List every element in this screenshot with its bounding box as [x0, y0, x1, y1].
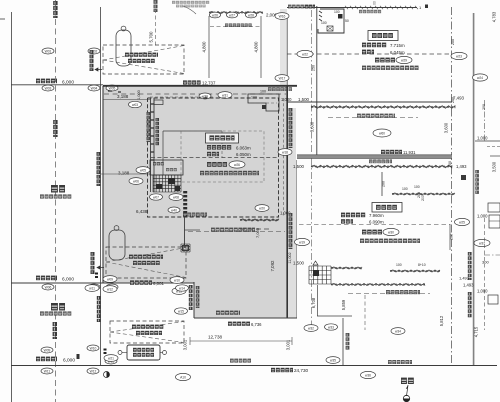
- west wall line inner: [153, 98, 155, 192]
- parapet dark box: [338, 14, 343, 19]
- balcony outline NE: [248, 94, 279, 111]
- site west boundary: [102, 86, 104, 283]
- dashes E of band: [487, 146, 500, 148]
- svg-text:200: 200: [448, 161, 452, 167]
- spec2 row eaves: [362, 50, 374, 54]
- svg-text:w06: w06: [133, 179, 139, 183]
- svg-text:W04: W04: [91, 86, 98, 90]
- svg-text:w28: w28: [248, 13, 254, 17]
- svg-text:W16: W16: [279, 14, 286, 18]
- svg-text:W11: W11: [44, 369, 51, 373]
- svg-text:100: 100: [396, 263, 402, 267]
- east eaves dash vline: [283, 98, 285, 217]
- svg-text:w08: w08: [173, 195, 179, 199]
- site south boundary: [194, 317, 297, 319]
- road name label 2: [51, 303, 65, 311]
- car space A dashed rect: [103, 45, 184, 74]
- bubble L2: [88, 48, 100, 54]
- bubble L11: [41, 368, 53, 374]
- bubble cc1: [104, 355, 118, 362]
- svg-text:200: 200: [382, 181, 386, 187]
- north hatch dim line: [209, 11, 263, 13]
- stair grid upper: [153, 175, 181, 192]
- wheel stops C: [104, 349, 107, 351]
- svg-text:w19: w19: [299, 240, 305, 244]
- east boundary ext above: [286, 18, 288, 86]
- svg-text:3,188: 3,188: [118, 171, 130, 176]
- site boundary dash row: [104, 93, 286, 95]
- neighbor boundary band: [297, 155, 452, 159]
- bubble rc1: [474, 239, 490, 246]
- north arrow label: [401, 378, 414, 384]
- svg-text:3,188: 3,188: [117, 94, 129, 99]
- site east narrow strip: [287, 108, 296, 318]
- svg-text:6,001: 6,001: [153, 281, 165, 286]
- svg-text:200: 200: [482, 104, 486, 110]
- inner room lines: [163, 130, 222, 132]
- dim line mid: [101, 173, 151, 175]
- road centerline label mid: [53, 120, 57, 137]
- bubble bl1: [304, 325, 318, 332]
- bubble s2: [129, 178, 143, 185]
- right dashdot boundary: [451, 7, 453, 365]
- bubble cb2: [170, 277, 184, 284]
- svg-text:w24: w24: [477, 76, 483, 80]
- svg-text:6.045m: 6.045m: [390, 50, 405, 55]
- svg-text:6.063m: 6.063m: [236, 146, 251, 151]
- bicycle shed label: [133, 348, 154, 352]
- svg-text:4,800: 4,800: [254, 41, 259, 53]
- bubble L1: [42, 48, 54, 54]
- svg-text:1,000: 1,000: [477, 136, 488, 141]
- east site boundary double: [473, 13, 475, 365]
- rc boundary text2: [468, 292, 472, 317]
- svg-text:11,931: 11,931: [403, 150, 416, 155]
- bubble re1: [473, 74, 488, 81]
- hatch dim line upper: [311, 106, 455, 109]
- entrance grid stall: [309, 266, 331, 284]
- dash vline 5700: [155, 9, 157, 46]
- stub vline r: [449, 224, 451, 250]
- parcel south dim: [130, 280, 152, 284]
- tree symbol A: [116, 30, 131, 66]
- airspace note NE: [268, 87, 292, 91]
- svg-text:1,493: 1,493: [456, 164, 467, 169]
- car space A diagonals: [103, 46, 184, 61]
- svg-text:w40: w40: [171, 208, 177, 212]
- bubble cr2: [175, 308, 188, 314]
- south boundary label: [216, 311, 240, 315]
- car space B diagonals: [106, 248, 186, 263]
- spec2 row note: [362, 66, 419, 70]
- spec1 row eaves: [207, 152, 219, 156]
- bubble L5: [106, 85, 118, 91]
- slope arrow A: [95, 68, 102, 71]
- west wall dim label: [147, 112, 151, 142]
- car space C dashed rect: [110, 321, 184, 343]
- svg-text:w26: w26: [234, 163, 240, 167]
- svg-text:100: 100: [414, 185, 420, 189]
- svg-text:100: 100: [321, 21, 327, 25]
- top small text col x312: [305, 5, 315, 9]
- svg-text:250: 250: [312, 65, 316, 71]
- corner boundary line: [193, 282, 195, 318]
- svg-text:00: 00: [373, 1, 377, 5]
- hatch step line: [392, 193, 455, 195]
- spec3 dashed line: [299, 224, 450, 226]
- mid stub hline: [317, 315, 352, 317]
- bubble L8: [106, 284, 118, 290]
- bubble cr1: [176, 285, 189, 291]
- svg-text:6,438: 6,438: [136, 209, 148, 214]
- svg-text:W12: W12: [90, 369, 97, 373]
- road horizontal edge top: [11, 84, 103, 86]
- tree symbol B: [109, 230, 125, 260]
- setback dim text: [183, 80, 201, 84]
- stair upper box: [150, 160, 183, 175]
- shed circle E: [163, 351, 167, 355]
- svg-text:7.960m: 7.960m: [369, 213, 384, 218]
- half moon symbol: [104, 372, 110, 378]
- north note row2: [176, 5, 206, 8]
- north arrow line: [407, 385, 409, 396]
- bicycle shed box: [127, 345, 160, 360]
- svg-text:W17: W17: [279, 76, 286, 80]
- svg-text:1,000: 1,000: [281, 97, 292, 102]
- svg-text:w30: w30: [388, 230, 394, 234]
- bubble rm1: [455, 218, 470, 225]
- bubble L3: [42, 85, 54, 91]
- bubble bl4: [326, 357, 340, 364]
- lower bracket note: [386, 290, 420, 294]
- band label below: [369, 159, 392, 163]
- bubble L6: [42, 284, 54, 290]
- upper bracket note: [357, 114, 395, 118]
- roof note text: [211, 228, 255, 232]
- slope arrow B: [97, 266, 104, 269]
- svg-text:w05: w05: [140, 168, 146, 172]
- sky dashed line: [287, 53, 452, 55]
- svg-text:4,715: 4,715: [474, 326, 479, 337]
- svg-text:8+10: 8+10: [418, 263, 426, 267]
- neighbor setback line W: [208, 16, 210, 78]
- shed circle W: [118, 351, 122, 355]
- svg-text:3,001: 3,001: [183, 339, 188, 350]
- stair south line: [184, 216, 186, 247]
- rc boundary text: [468, 252, 472, 280]
- svg-text:W03: W03: [45, 86, 52, 90]
- svg-text:w23: w23: [456, 54, 462, 58]
- bubble s1: [136, 167, 150, 174]
- east elevation label 3: [230, 359, 251, 363]
- sky bubble 1: [297, 50, 313, 57]
- site east boundary bold: [286, 86, 288, 318]
- vdash lower mid: [364, 295, 366, 330]
- slope label A: [90, 50, 94, 71]
- road centerline (dashed): [55, 0, 57, 402]
- north hatch bubbles: [209, 12, 220, 18]
- bubble L7: [88, 284, 100, 290]
- neighbor setback line E: [260, 16, 262, 78]
- hatch line stall E: [331, 267, 362, 269]
- hatch line lower: [331, 283, 425, 285]
- bubble L4: [88, 85, 100, 91]
- bubble L13: [105, 358, 117, 364]
- balcony dark mark: [262, 105, 266, 109]
- svg-text:12,738: 12,738: [208, 335, 222, 340]
- under-stairs label: [183, 213, 207, 217]
- svg-text:200: 200: [451, 97, 455, 103]
- svg-text:50: 50: [345, 19, 349, 23]
- svg-text:w10: w10: [174, 278, 180, 282]
- svg-text:6.090m: 6.090m: [369, 220, 384, 225]
- spec1 row note: [200, 171, 259, 175]
- north note row1: [172, 1, 209, 4]
- road west edge line: [11, 12, 13, 402]
- svg-text:6,736: 6,736: [251, 322, 262, 327]
- svg-text:w33: w33: [328, 325, 334, 329]
- svg-text:w34: w34: [395, 329, 401, 333]
- bubble s3: [150, 194, 163, 200]
- svg-text:1,000: 1,000: [477, 214, 488, 219]
- front road dash-dot line: [311, 10, 313, 330]
- svg-text:w25: w25: [459, 220, 465, 224]
- bubble b1: [129, 101, 142, 107]
- vdash x155 top marks: [154, 0, 158, 12]
- road width text mid: [36, 276, 57, 281]
- SE vert label: [346, 333, 350, 350]
- rc small box 1: [488, 203, 500, 212]
- spec2 row height: [362, 43, 386, 48]
- rc small box 2: [489, 215, 500, 228]
- car space B label: [129, 255, 163, 259]
- svg-text:w09: w09: [107, 277, 113, 281]
- spec3 row note: [360, 239, 420, 243]
- svg-text:w18: w18: [282, 150, 288, 154]
- spec3 row slope: [362, 230, 382, 235]
- svg-text:100: 100: [251, 95, 257, 99]
- svg-text:W01: W01: [45, 49, 52, 53]
- svg-text:w32: w32: [308, 326, 314, 330]
- parapet xbox: [327, 26, 333, 31]
- top airspace text: [288, 5, 315, 9]
- slope label B: [91, 252, 95, 274]
- svg-text:1,500: 1,500: [293, 164, 305, 169]
- svg-text:5,700: 5,700: [149, 31, 154, 43]
- svg-text:3,600: 3,600: [310, 121, 315, 132]
- svg-text:w31: w31: [222, 93, 228, 97]
- bubble bb1: [176, 373, 191, 380]
- lower bracket dashed: [348, 293, 430, 295]
- mid stub vline: [317, 285, 319, 316]
- svg-text:w26: w26: [212, 13, 218, 17]
- hatch end blob: [461, 175, 466, 180]
- road horizontal edge bottom: [11, 365, 497, 367]
- road horizontal edge mid: [11, 282, 194, 284]
- bubble gray1: [255, 205, 269, 212]
- svg-text:100: 100: [260, 90, 266, 94]
- bubble e4: [295, 238, 310, 245]
- road width text top: [36, 79, 57, 84]
- spec3 row height: [341, 213, 365, 218]
- inner partition dashed: [181, 131, 264, 182]
- road centerline label top: [53, 1, 57, 18]
- bubble L10: [87, 345, 99, 351]
- svg-text:1,493: 1,493: [463, 283, 474, 288]
- top boundary line: [287, 7, 417, 9]
- bubble cb1: [103, 276, 117, 283]
- svg-text:w29: w29: [401, 58, 407, 62]
- bubble cb3: [85, 285, 99, 292]
- bubble e1: [275, 13, 289, 20]
- rc small box 3: [488, 295, 498, 304]
- corner vert text W: [189, 285, 193, 310]
- svg-text:w03: w03: [132, 103, 138, 107]
- roof note bracket: [188, 231, 285, 233]
- SE corner vline: [342, 318, 344, 365]
- boundary dash bubble: [218, 92, 232, 99]
- east elevation label 2: [388, 360, 412, 364]
- stub vline mid: [381, 172, 383, 196]
- svg-text:w60: w60: [379, 131, 385, 135]
- dim line 3188 top: [103, 99, 150, 101]
- hatch step line 2: [390, 270, 440, 272]
- svg-text:w36: w36: [365, 373, 371, 377]
- svg-text:1,493: 1,493: [459, 275, 470, 280]
- hatch dim line mid: [311, 165, 452, 168]
- spec3 title box: [372, 203, 402, 213]
- balcony dashes: [251, 102, 277, 104]
- south dim 6736: [228, 322, 250, 326]
- svg-text:100: 100: [402, 187, 408, 191]
- spec2 title box: [368, 31, 398, 41]
- svg-text:w27: w27: [229, 13, 235, 17]
- svg-text:1,500: 1,500: [293, 261, 305, 266]
- svg-text:1,500: 1,500: [298, 97, 310, 102]
- wheel stops B: [95, 273, 98, 275]
- svg-text:w21: w21: [108, 356, 114, 360]
- svg-text:6,708: 6,708: [311, 297, 316, 308]
- bubble cb4: [103, 286, 117, 293]
- south boundary total: [271, 368, 293, 372]
- svg-text:200: 200: [451, 39, 455, 45]
- svg-text:100: 100: [334, 10, 340, 14]
- dashes under building: [240, 228, 272, 230]
- bubble e2: [275, 75, 289, 82]
- tiny marks above shed: [77, 354, 80, 359]
- svg-text:W10: W10: [90, 346, 97, 350]
- svg-text:5,812: 5,812: [439, 315, 444, 326]
- building mid dashed line: [151, 157, 279, 159]
- bubble s4: [169, 194, 183, 201]
- spec2 row slope: [375, 58, 395, 63]
- svg-text:7,060: 7,060: [255, 227, 260, 238]
- sky bubble 2: [451, 52, 467, 59]
- stair dark cells: [168, 178, 175, 184]
- bubble bl2: [325, 324, 338, 330]
- dashdot rc h: [484, 254, 500, 256]
- svg-text:200: 200: [450, 234, 454, 240]
- svg-text:6,000: 6,000: [62, 276, 74, 282]
- spec1 title box: [206, 133, 239, 143]
- svg-text:1,000: 1,000: [137, 90, 141, 100]
- west wall line outer: [150, 98, 152, 192]
- front road airspace line: [316, 6, 318, 155]
- north arrow circle: [403, 395, 409, 401]
- road boundary vertical label 1: [97, 152, 101, 186]
- north strip shading: [280, 9, 287, 86]
- car space C label: [132, 325, 163, 329]
- bubble bl5: [361, 371, 376, 378]
- road centerline label bottom: [53, 322, 57, 339]
- east boundary text upper: [289, 108, 293, 148]
- stair hatch strip: [183, 191, 187, 193]
- hatch box south: [181, 244, 190, 252]
- rear boundary line: [287, 101, 452, 103]
- parapet hatch: [319, 11, 322, 21]
- north dashed bracket: [210, 26, 262, 28]
- spec3 row eaves: [341, 219, 353, 223]
- strip east edge: [296, 160, 298, 318]
- building eaves dashed outline: [148, 98, 279, 217]
- svg-text:24,730: 24,730: [294, 368, 308, 373]
- car space A label: [125, 53, 158, 57]
- svg-text:W09: W09: [44, 348, 51, 352]
- west wall ticks: [151, 104, 155, 160]
- road width text bottom: [36, 357, 57, 362]
- svg-text:7.715m: 7.715m: [390, 43, 405, 48]
- svg-text:w14: w14: [179, 286, 185, 290]
- road east boundary line: [100, 7, 102, 365]
- line E stub: [490, 155, 500, 157]
- svg-text:w15: w15: [178, 309, 184, 313]
- road boundary label 5501: [97, 296, 101, 322]
- zigzag under building: [240, 219, 279, 221]
- svg-text:300: 300: [482, 260, 489, 265]
- bubble e3: [278, 149, 292, 156]
- tiny tick left edge: [0, 18, 5, 20]
- svg-text:5,859: 5,859: [341, 299, 346, 310]
- svg-text:4,783: 4,783: [492, 11, 497, 22]
- svg-text:A10: A10: [180, 375, 186, 379]
- bubble s5: [168, 207, 180, 213]
- svg-text:6,000: 6,000: [62, 79, 74, 85]
- car space B dashed rect: [106, 247, 186, 278]
- spec1 row height: [207, 145, 231, 150]
- east boundary text lower: [289, 213, 293, 249]
- north bracket note: [225, 23, 252, 27]
- site area fill (main parcel): [103, 86, 287, 318]
- spec1 row slope: [207, 162, 227, 167]
- dashdot E upper: [484, 100, 486, 141]
- car space C diagonals: [110, 322, 184, 333]
- north leader: [183, 6, 196, 14]
- svg-text:1,000: 1,000: [477, 289, 488, 294]
- vdash rc: [484, 218, 486, 330]
- svg-text:12,737: 12,737: [202, 81, 216, 86]
- bubble L12: [87, 368, 99, 374]
- parapet outline: [318, 9, 344, 33]
- svg-text:6.050m: 6.050m: [236, 152, 251, 157]
- svg-text:3,001: 3,001: [286, 339, 291, 350]
- svg-text:w07: w07: [153, 195, 159, 199]
- svg-text:3,600: 3,600: [444, 122, 449, 133]
- bubble bl3: [391, 328, 405, 335]
- top hatch ticks: [345, 6, 418, 9]
- svg-text:w20: w20: [259, 206, 265, 210]
- stall marker: [313, 261, 318, 265]
- svg-text:7,092: 7,092: [270, 260, 275, 272]
